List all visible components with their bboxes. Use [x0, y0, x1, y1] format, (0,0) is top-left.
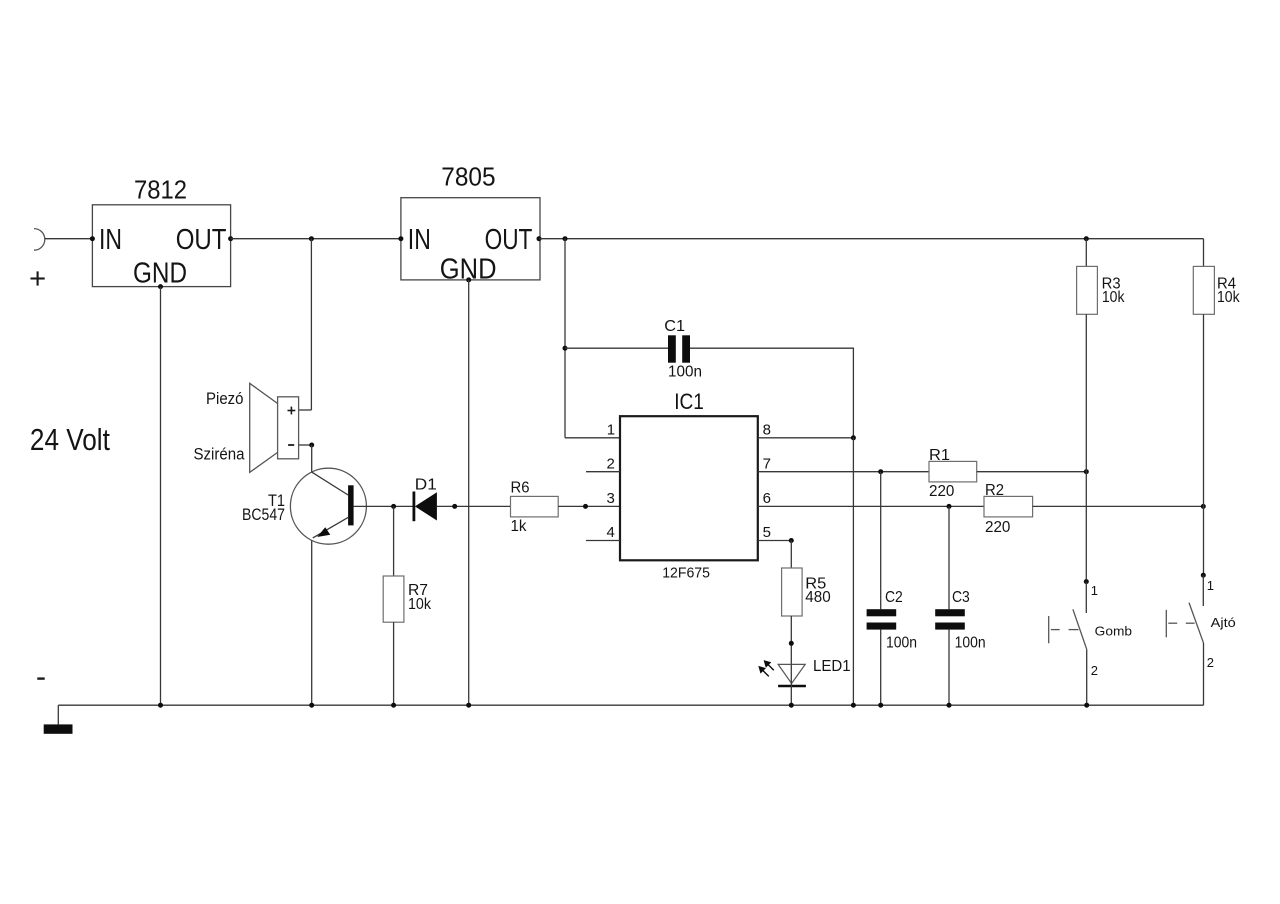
- svg-text:IC1: IC1: [674, 389, 704, 414]
- regulator U 7812 box: [92, 174, 230, 289]
- wire C2 to ground rail: [880, 630, 882, 706]
- wire input arc to 7812 IN: [45, 238, 93, 240]
- wire 12V rail 7805 OUT to top-right corner: [539, 238, 1204, 240]
- wire pin 6 to R2: [758, 505, 984, 507]
- node C1 left junction: [563, 346, 568, 351]
- svg-text:LED1: LED1: [813, 658, 851, 675]
- node R2 right / R4 line junction: [1201, 504, 1206, 509]
- plus sign label: [31, 271, 45, 285]
- resistor R5 480: [782, 541, 831, 665]
- node 7812 OUT pin: [228, 236, 233, 241]
- wire 7805 GND down to ground rail: [468, 280, 470, 705]
- svg-text:C3: C3: [952, 589, 970, 606]
- svg-text:Ajtó: Ajtó: [1211, 615, 1236, 630]
- switch S Gomb: [1049, 579, 1132, 705]
- node piezo minus junction: [309, 443, 314, 448]
- minus sign label: [37, 677, 44, 679]
- node pin 7 / C2 junction: [878, 469, 883, 474]
- svg-text:Gomb: Gomb: [1095, 624, 1132, 639]
- node pin 6 / C3 junction: [947, 504, 952, 509]
- node 5V rail to C1/IC branch: [563, 236, 568, 241]
- svg-text:10k: 10k: [408, 596, 432, 613]
- svg-text:D1: D1: [415, 476, 437, 493]
- svg-text:100n: 100n: [955, 634, 986, 651]
- resistor R1 220: [929, 447, 977, 500]
- node ground rail emitter: [309, 703, 314, 708]
- resistor R6 1k: [511, 479, 559, 535]
- IC U IC1 12F675 box: [620, 389, 758, 582]
- node ground rail LED: [789, 703, 794, 708]
- svg-text:220: 220: [929, 483, 954, 500]
- wire 7812 GND down to ground rail: [160, 287, 162, 706]
- node base / R7 junction: [391, 504, 396, 509]
- wire ground rail: [58, 704, 1203, 706]
- svg-text:Sziréna: Sziréna: [194, 444, 245, 463]
- svg-text:R1: R1: [929, 447, 950, 464]
- svg-text:R6: R6: [511, 479, 530, 496]
- svg-text:C1: C1: [664, 318, 685, 335]
- svg-text:10k: 10k: [1217, 289, 1240, 306]
- svg-text:1: 1: [1207, 578, 1214, 593]
- svg-text:BC547: BC547: [242, 505, 285, 524]
- LED LED1: [758, 658, 850, 705]
- wire collector drop into transistor: [311, 445, 313, 472]
- node 7812 GND pin: [158, 284, 163, 289]
- speaker piezo symbol: [194, 383, 299, 472]
- wire C3 branch from pin6 junction: [948, 506, 950, 609]
- wire C1 right to pin8 branch corner: [690, 348, 853, 438]
- node 7805 GND pin: [466, 277, 471, 282]
- node 5V rail to R3 branch: [1084, 236, 1089, 241]
- node R5 / LED junction: [789, 641, 794, 646]
- wire R1 to R3 line: [977, 471, 1087, 473]
- node ground rail Gomb: [1084, 703, 1089, 708]
- input connector arc (+ terminal): [34, 229, 45, 251]
- svg-text:5: 5: [763, 524, 771, 541]
- wire emitter down to ground rail: [311, 540, 313, 705]
- node 7805 OUT pin: [537, 236, 542, 241]
- wire pin 7 to R1: [758, 471, 929, 473]
- wire ground rail left drop: [57, 705, 59, 724]
- wire pin 8 to right branch: [758, 437, 854, 439]
- svg-text:4: 4: [607, 524, 615, 541]
- svg-text:2: 2: [1207, 655, 1214, 670]
- svg-text:7: 7: [763, 455, 771, 472]
- svg-text:100n: 100n: [886, 634, 917, 651]
- wire 7812 OUT to 7805 IN: [231, 238, 401, 240]
- wire piezo minus to collector branch: [299, 444, 312, 446]
- svg-text:OUT: OUT: [176, 224, 227, 256]
- node ground rail R7: [391, 703, 396, 708]
- wire 5V drop to IC pin 1: [564, 239, 566, 438]
- node wire joint after D1: [452, 504, 457, 509]
- svg-text:Piezó: Piezó: [206, 389, 244, 408]
- capacitor C2 100n: [867, 589, 917, 651]
- node ground rail 7805 GND: [466, 703, 471, 708]
- svg-text:1k: 1k: [511, 518, 528, 535]
- node 7805 IN pin: [398, 236, 403, 241]
- diode D1: [414, 476, 437, 521]
- wire R2 to R4 line: [1033, 505, 1204, 507]
- node ground rail pin8 branch: [851, 703, 856, 708]
- wire piezo plus stub: [299, 409, 312, 411]
- svg-text:1: 1: [1091, 583, 1098, 598]
- svg-text:R2: R2: [985, 482, 1004, 499]
- svg-text:2: 2: [1091, 663, 1098, 678]
- wire into pin 1: [565, 437, 620, 439]
- switch S Ajtó: [1166, 573, 1235, 706]
- node 12V rail to piezo branch: [309, 236, 314, 241]
- node ground rail C3: [947, 703, 952, 708]
- wire pin 2 stub: [586, 471, 620, 473]
- wire piezo plus drop from 12V rail: [310, 239, 312, 410]
- wire R6 to IC pin 3: [558, 505, 620, 507]
- svg-text:8: 8: [763, 422, 771, 439]
- svg-text:10k: 10k: [1102, 289, 1125, 306]
- capacitor C3 100n: [935, 589, 985, 651]
- node 7812 IN pin: [90, 236, 95, 241]
- transistor Q T1 BC547: [242, 468, 366, 544]
- svg-text:12F675: 12F675: [662, 566, 710, 582]
- resistor R3 10k: [1077, 239, 1126, 582]
- svg-text:1: 1: [607, 422, 615, 439]
- svg-text:C2: C2: [885, 589, 903, 606]
- svg-text:3: 3: [607, 490, 615, 507]
- svg-text:2: 2: [607, 455, 615, 472]
- wire C3 to ground rail: [948, 630, 950, 706]
- svg-text:220: 220: [985, 519, 1010, 536]
- svg-text:480: 480: [805, 589, 830, 606]
- resistor R7 10k: [383, 506, 432, 705]
- svg-text:7812: 7812: [134, 174, 187, 204]
- wire C1 left: [565, 347, 668, 349]
- node pin 5 / R5 junction: [789, 538, 794, 543]
- svg-text:IN: IN: [99, 224, 122, 256]
- ground symbol bar: [44, 724, 73, 733]
- wire C2 branch from pin7 junction: [880, 472, 882, 610]
- svg-text:OUT: OUT: [485, 224, 533, 256]
- svg-text:6: 6: [763, 490, 771, 507]
- resistor R2 220: [984, 482, 1033, 536]
- wire D1 to R6: [437, 505, 511, 507]
- svg-text:IN: IN: [408, 224, 431, 256]
- svg-text:7805: 7805: [441, 162, 495, 192]
- svg-text:24 Volt: 24 Volt: [30, 422, 110, 457]
- resistor R4 10k: [1193, 239, 1240, 576]
- wire pin 4 stub: [586, 540, 620, 542]
- wire pin 5 stub: [758, 540, 792, 542]
- capacitor C1 100n: [664, 318, 702, 381]
- node ground rail C2: [878, 703, 883, 708]
- svg-text:100n: 100n: [668, 363, 702, 380]
- node ground rail 7812 GND: [158, 703, 163, 708]
- regulator U 7805 box: [401, 162, 540, 286]
- node pin 8 branch junction: [851, 435, 856, 440]
- node R1 right / R3 line junction: [1084, 469, 1089, 474]
- wire base to D1: [354, 505, 414, 507]
- wire pin8 branch down to ground rail: [852, 438, 854, 705]
- node wire joint before pin 3: [583, 504, 588, 509]
